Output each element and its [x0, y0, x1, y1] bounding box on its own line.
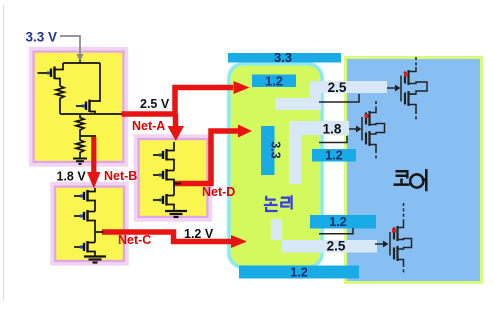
- transistor Q4: [88, 211, 96, 213]
- svg-text:1.2: 1.2: [265, 74, 283, 89]
- ground (box2): [84, 257, 106, 263]
- pale bus 2.5 lower: [271, 219, 377, 253]
- ground (box3): [165, 211, 187, 217]
- inverter U1 (top, 2.5 gate): [401, 57, 427, 120]
- hangul NON: [266, 196, 276, 200]
- node junction stub to Net-B: [80, 135, 96, 137]
- svg-text:1.8: 1.8: [323, 122, 342, 137]
- svg-text:2.5: 2.5: [328, 80, 347, 95]
- 1.2 bar top-left of logic: [252, 75, 296, 88]
- gate highlight dot U2: [365, 114, 369, 118]
- svg-text:Net-A: Net-A: [132, 119, 165, 133]
- svg-text:Net-B: Net-B: [104, 169, 137, 183]
- svg-text:Net-D: Net-D: [202, 185, 235, 199]
- 3.3 supply rail bar (top): [228, 53, 341, 63]
- ground (box1): [73, 159, 87, 164]
- transistor Q8: [167, 195, 175, 197]
- gate pin tick Q5: [80, 246, 83, 249]
- regulator box 1 (3.3V input, yellow): [31, 49, 127, 166]
- transistor Q6: [167, 142, 175, 151]
- box1 output rail node: [60, 113, 123, 115]
- resistor R2: [76, 114, 84, 136]
- gate pin tick Q7: [159, 174, 162, 177]
- gate pin tick Q1: [47, 72, 50, 75]
- svg-text:3.3: 3.3: [274, 50, 292, 65]
- resistor R3: [76, 136, 84, 158]
- gate pin tick Q2: [82, 105, 85, 108]
- arrow into inverter U2: [349, 128, 357, 130]
- arrow into inverter U1: [387, 87, 396, 89]
- transistor Q1 (PMOS, box1 left): [38, 63, 64, 86]
- svg-text:1.2: 1.2: [329, 215, 346, 229]
- hangul RI: [281, 198, 290, 207]
- hangul EO: [410, 174, 423, 187]
- wire Net-A red: down into box3: [173, 114, 179, 127]
- wire bracket from 1.2 bar: [319, 228, 353, 234]
- transistor Q3: [88, 188, 96, 192]
- gate pin tick Q8: [159, 199, 162, 202]
- slide frame faint line: [3, 5, 5, 300]
- regulator box 3 (middle, yellow): [136, 136, 211, 220]
- node to Net-D: [174, 183, 181, 185]
- transistor Q7: [167, 170, 175, 172]
- wire bracket under 1.8 bus: [319, 136, 347, 143]
- label 코어 (core): [394, 169, 427, 191]
- gate highlight dot U1: [404, 73, 408, 77]
- 1.2 bar mid (under 1.8): [312, 149, 356, 162]
- box2 transistor chain: [74, 188, 103, 256]
- gate pin tick Q6: [159, 154, 162, 157]
- 3.3 vertical bar inside logic: [261, 126, 275, 175]
- transistor Q5: [88, 242, 96, 244]
- resistor R1: [56, 86, 64, 114]
- svg-text:3.3 V: 3.3 V: [26, 30, 58, 45]
- transistor Q2 (NMOS, box1 right): [76, 63, 100, 113]
- svg-text:3.3: 3.3: [269, 141, 283, 158]
- wire Net-D red: box3 node to 3.3 vertical bar: [173, 131, 238, 184]
- logic block (논리) green rounded box: [229, 64, 322, 267]
- box1 top rail: [63, 62, 100, 64]
- wire 2.5V red: box1 node to logic 1.2 bar: [122, 88, 234, 115]
- svg-text:1.2: 1.2: [290, 266, 307, 280]
- supply feed wire (gray): [60, 36, 80, 55]
- svg-text:1.2 V: 1.2 V: [184, 227, 214, 241]
- hangul KO: [396, 171, 408, 178]
- core block (코어) blue box: [346, 58, 482, 283]
- arrow into inverter U3: [375, 243, 384, 245]
- gate pin tick Q4: [80, 215, 83, 218]
- box3 transistor chain: [153, 142, 181, 211]
- gate pin tick Q3: [80, 195, 83, 198]
- inverter U2 (middle, 1.8 gate): [362, 101, 385, 160]
- label 논리 (logic): [264, 195, 292, 211]
- svg-text:1.8 V: 1.8 V: [57, 170, 87, 184]
- wire Net-B red: box1 divider node down into box2: [91, 137, 96, 173]
- svg-text:2.5: 2.5: [327, 239, 346, 254]
- gate highlight dot U3: [392, 229, 396, 233]
- svg-text:1.2: 1.2: [325, 149, 342, 163]
- wire bracket under 2.5 bus: [319, 94, 359, 102]
- svg-text:2.5 V: 2.5 V: [140, 97, 170, 111]
- 1.2 supply rail bar (bottom): [239, 266, 359, 279]
- pale bus 1.8 (gamma shape): [289, 121, 349, 184]
- inverter U3 (bottom, 2.5 gate): [390, 203, 412, 274]
- node to Net-C: [95, 231, 103, 233]
- pale bus 2.5 (top connector into core): [275, 81, 387, 110]
- wire Net-C / 1.2V red: box2 node to logic: [102, 232, 232, 242]
- 1.2 bar lower right: [310, 215, 376, 229]
- svg-text:Net-C: Net-C: [118, 233, 151, 247]
- regulator box 2 (bottom-left, yellow): [52, 184, 127, 265]
